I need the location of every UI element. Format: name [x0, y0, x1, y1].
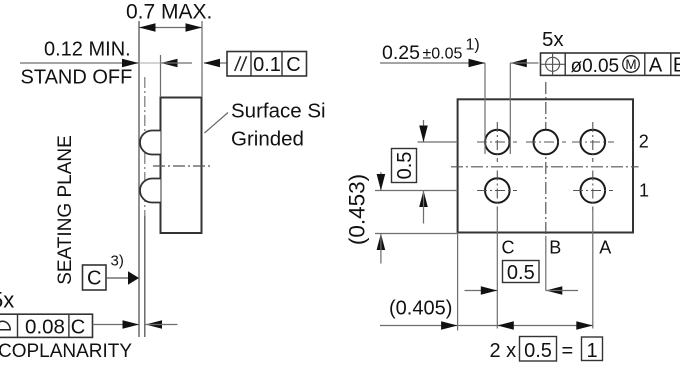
modifier M circle [623, 56, 640, 73]
svg-text:0.5: 0.5 [507, 262, 535, 284]
dim 0.12 MIN: thin line across gap [139, 62, 161, 64]
boxed 0.5 (column pitch) [503, 261, 540, 285]
package body (side view) [161, 98, 202, 234]
package outline (bottom view) [458, 99, 633, 232]
dim (0.453): up arrowhead [377, 234, 386, 251]
package left edge extension below [457, 233, 459, 331]
svg-text:Grinded: Grinded [231, 128, 304, 151]
svg-text:1: 1 [639, 181, 649, 201]
crosshair A1 vertical [592, 171, 594, 211]
coplanarity arrow tail right [146, 324, 178, 326]
svg-text:B: B [549, 238, 561, 258]
svg-text:2: 2 [639, 132, 649, 152]
column pitch dim line left tail [465, 290, 498, 292]
dim (0.453): down arrowhead [377, 174, 386, 191]
row 1 left extension [375, 190, 458, 192]
svg-text:(0.405): (0.405) [389, 298, 452, 320]
svg-text:A: A [649, 55, 663, 77]
bottom dim line [380, 325, 593, 327]
dim 0.12 MIN: left arrowhead at body face [161, 59, 178, 68]
coplanarity FCF frame [0, 314, 93, 337]
crosshair C1 vertical [496, 171, 498, 211]
svg-text:SEATING PLANE: SEATING PLANE [55, 135, 76, 285]
dim 2x0.5: left arrowhead [497, 321, 514, 330]
dim 0.7 MAX: left arrowhead [139, 23, 156, 32]
body left face extension line [160, 55, 162, 97]
parallelism FCF frame [227, 52, 307, 77]
crosshair A2 horizontal [572, 141, 614, 143]
surface note leader [205, 113, 229, 134]
position symbol [541, 53, 565, 75]
datum C filled triangle [128, 271, 139, 285]
row 2 left extension [418, 141, 458, 143]
crosshair C1 horizontal [477, 190, 517, 192]
svg-text:B: B [673, 55, 680, 77]
crosshair A2 vertical [592, 122, 594, 162]
dim (0.453): bottom arrow tail [380, 234, 382, 264]
position FCF frame [541, 53, 680, 75]
datum C callout box [83, 265, 107, 290]
svg-text:0.5: 0.5 [524, 340, 552, 362]
row pitch dim: up arrowhead [419, 191, 428, 208]
dim 0.25: dimension line left [380, 62, 485, 64]
column pitch dim line right tail [546, 290, 578, 292]
svg-text:M: M [625, 57, 636, 72]
dim 0.25: arrow tail to FCF [510, 62, 538, 64]
svg-text:0.12 MIN.: 0.12 MIN. [44, 39, 131, 61]
svg-text:A: A [599, 238, 611, 258]
svg-text:1): 1) [466, 37, 480, 54]
svg-text:COPLANARITY: COPLANARITY [0, 341, 132, 362]
svg-text:Surface Si: Surface Si [231, 100, 326, 123]
coplanarity zone line (dash-dot upper part) [144, 77, 146, 216]
seating plane line (datum C) [138, 21, 140, 337]
crosshair C2 vertical [496, 122, 498, 162]
dim 0.12 MIN: arrow tail [161, 62, 192, 64]
boxed 0.5 (row pitch, rotated) [392, 149, 417, 183]
bump row 1 (side view) [140, 179, 161, 203]
svg-text:=: = [562, 340, 574, 362]
dim 0.12 MIN: leader line left [20, 62, 139, 64]
dim 0.7 MAX: right arrowhead [186, 23, 203, 32]
svg-text:0.7 MAX.: 0.7 MAX. [126, 1, 212, 24]
column pitch right arrowhead [481, 286, 498, 295]
bottom edge left extension [375, 233, 458, 235]
column pitch left arrowhead [546, 286, 563, 295]
dim 0.7 MAX: dimension line [139, 27, 202, 29]
svg-text:5x: 5x [0, 288, 14, 313]
dim (0.405): right arrowhead [441, 321, 458, 330]
ball C1 [485, 178, 510, 203]
coplanarity symbol (half disc) [0, 321, 10, 330]
svg-text:ø0.05: ø0.05 [571, 56, 620, 77]
dim 0.12 MIN: right arrowhead at seating plane [122, 59, 139, 68]
dim 0.25: ball left tangent extension [484, 63, 486, 154]
svg-text:C: C [286, 54, 300, 76]
column B extension below package [545, 236, 547, 291]
datum C leader [106, 277, 130, 279]
dim 0.25: right arrowhead [469, 59, 486, 68]
svg-text:0.25: 0.25 [382, 42, 420, 64]
dim 0.25: left arrowhead [510, 59, 527, 68]
package horizontal center line [451, 166, 639, 168]
body center line (side view) [153, 165, 213, 167]
crosshair A1 horizontal [573, 190, 613, 192]
svg-text:(0.453): (0.453) [345, 174, 370, 245]
crosshair B2 horizontal [526, 141, 566, 143]
svg-text:0.08: 0.08 [25, 316, 65, 339]
crosshair C2 horizontal [477, 141, 517, 143]
ball C2 [485, 130, 510, 155]
ball A1 [581, 178, 606, 203]
dim (0.453): top arrow tail [380, 172, 382, 191]
svg-text:STAND OFF: STAND OFF [21, 67, 133, 89]
svg-text:C: C [502, 238, 515, 258]
parallelism FCF arrowhead [204, 59, 221, 68]
column C extension line below [496, 211, 498, 329]
bump row 2 (side view) [140, 131, 161, 155]
column B center line [545, 82, 547, 236]
svg-text:1: 1 [586, 340, 597, 362]
dim 0.25: ball right tangent extension [509, 63, 511, 154]
coplanarity zone line (solid lower part) [144, 216, 146, 337]
svg-text:C: C [87, 268, 101, 290]
svg-text:2 x: 2 x [490, 340, 517, 362]
coplanarity right arrowhead [123, 320, 140, 329]
svg-text:3): 3) [111, 253, 124, 270]
row pitch dim: top arrow tail [423, 120, 425, 142]
svg-text:0.5: 0.5 [394, 152, 416, 180]
ball A2 [581, 130, 606, 155]
dim 2x0.5: right arrowhead [576, 321, 593, 330]
row pitch dim: bottom arrow tail [423, 191, 425, 224]
column A extension line below [592, 211, 594, 329]
svg-text:±0.05: ±0.05 [423, 46, 463, 63]
coplanarity left arrowhead [146, 320, 163, 329]
formula 2 x 0.5 = 1 [490, 337, 603, 363]
row pitch dim: down arrowhead [419, 126, 428, 143]
dim 0.7 MAX: right extension line [201, 21, 203, 97]
svg-text:0.1: 0.1 [253, 54, 281, 76]
coplanarity dim line left [93, 324, 140, 326]
svg-text:5x: 5x [542, 28, 564, 51]
parallelism symbol // [235, 56, 247, 71]
ball B2 [534, 130, 559, 155]
parallelism FCF arrow tail [204, 62, 227, 64]
svg-text:C: C [71, 317, 85, 339]
